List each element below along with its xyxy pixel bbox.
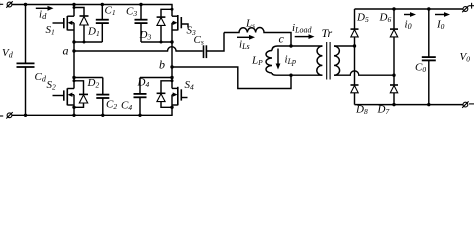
diode D8 [351,85,359,105]
wire bus C2 top [74,77,103,79]
node junction bus left [72,40,75,43]
node junction secondary top [353,44,356,47]
wire left leg bottom [73,95,75,116]
node junction D1 jog [73,6,76,9]
transformer Tr secondary [334,46,394,75]
wire bus C3 D3 bottom [141,41,172,43]
node junction D1 bottom [83,41,86,44]
diode D3 [157,17,166,42]
wire bus C4 top [140,77,172,79]
node b junction [170,65,173,68]
label minus right [469,103,474,105]
diode D4 [157,81,172,108]
capacitor C1 [96,5,109,43]
wire left leg middle [73,23,75,89]
node junction D3 jog [171,8,174,11]
wire rectifier bottom rail [355,104,464,106]
svg-text:id: id [39,9,47,22]
current arrow iLp [276,49,281,70]
node junction D4 bottom [170,106,173,109]
terminal output + [462,6,468,12]
node junction left leg bottom rail [72,114,75,117]
current arrow iLs [237,35,255,40]
diode D6 branch [390,9,398,85]
wire node b to return [172,67,291,89]
node junction Lp bottom [289,74,292,77]
wire right leg top corner [171,5,173,17]
diode D1 [80,16,89,42]
wire left leg upper (drain S1) [73,5,75,17]
capacitor C0 [422,9,436,105]
node junction C1 on top rail [101,3,104,6]
transistor S2 [53,88,75,105]
label plus left [0,2,3,8]
label plus right [469,3,474,9]
node junction C0 top [427,7,430,10]
node junction D6 top rail [392,7,395,10]
current arrow id [36,6,54,11]
svg-text:Tr: Tr [322,26,333,40]
capacitor C4 [134,78,147,116]
diode D5 branch [351,9,359,85]
capacitor Cs [204,33,225,59]
wire right leg bottom [171,95,173,116]
terminal input + [6,1,12,7]
svg-text:c: c [279,32,285,46]
node junction D2C2 bus [72,76,75,79]
transistor S1 [53,16,75,30]
transformer Tr primary [291,46,322,75]
inductor Ls [224,28,291,47]
inductor Lp [266,46,291,75]
diode D2 [74,81,88,108]
wire bottom rail [12,114,173,116]
capacitor C2 [96,78,109,116]
wire right leg middle [171,23,173,89]
node junction D2 bottom [72,106,75,109]
node junction C2 bottom rail [101,114,104,117]
node a junction [72,49,75,52]
wire D3 top jog [161,9,172,17]
capacitor C3 [135,5,148,43]
node junction C4D4 bus [170,76,173,79]
capacitor Cd [17,5,35,116]
terminal input - [6,112,12,118]
node junction bus right [170,40,173,43]
node junction left leg on top rail [72,3,75,6]
wire rectifier top rail [355,8,464,10]
wire bus D1 C1 bottom [74,41,102,43]
node junction C3 on top rail [139,3,142,6]
node junction Cd bottom [24,114,27,117]
transistor S4 [172,87,188,106]
label minus left [0,115,3,117]
node junction D2 jog [73,79,76,82]
terminal output - [462,101,468,107]
current arrow i0 [404,12,416,17]
node junction D3 bottom [160,41,163,44]
wire D1 top jog [74,8,84,17]
wire node c to transformer [291,45,322,47]
node junction D7 bottom rail [392,103,395,106]
node junction C4 bottom rail [138,114,141,117]
wire top rail [12,4,173,6]
node junction secondary bottom [392,74,395,77]
node c junction [289,44,292,47]
diode D7 [390,85,398,105]
svg-text:b: b [159,58,165,72]
node junction Cd top [24,3,27,6]
current arrow iLoad [295,34,315,39]
node junction C0 bottom [427,103,430,106]
wire node a to Cs with hop [74,47,203,51]
node junction D4 jog [171,79,174,82]
transformer Tr core [327,42,330,80]
transistor S3 [172,15,188,30]
current arrow I0 [435,12,450,17]
svg-text:a: a [63,44,69,58]
